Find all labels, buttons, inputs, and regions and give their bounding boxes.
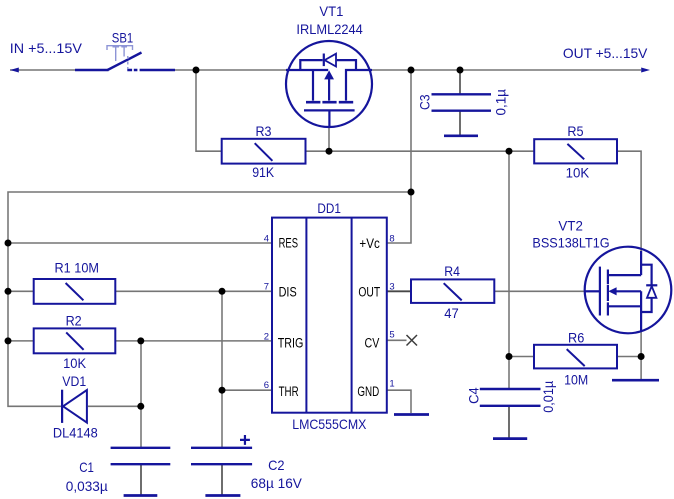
svg-text:DIS: DIS xyxy=(279,284,297,299)
svg-text:IRLML2244: IRLML2244 xyxy=(296,21,363,37)
svg-text:TRIG: TRIG xyxy=(278,335,304,350)
svg-text:OUT: OUT xyxy=(358,284,380,299)
svg-text:0,1µ: 0,1µ xyxy=(493,89,509,116)
svg-text:91K: 91K xyxy=(252,164,275,180)
svg-text:R1 10M: R1 10M xyxy=(55,260,100,276)
svg-text:2: 2 xyxy=(264,331,269,342)
svg-text:0,01µ: 0,01µ xyxy=(540,381,556,413)
svg-text:5: 5 xyxy=(389,330,394,341)
svg-text:THR: THR xyxy=(279,384,299,399)
svg-text:RES: RES xyxy=(279,235,298,250)
svg-text:+Vc: +Vc xyxy=(359,236,380,251)
svg-text:C1: C1 xyxy=(79,459,94,475)
svg-text:10M: 10M xyxy=(564,371,588,387)
svg-text:DL4148: DL4148 xyxy=(53,424,98,440)
svg-text:LMC555CMX: LMC555CMX xyxy=(292,416,367,432)
svg-text:68µ 16V: 68µ 16V xyxy=(251,475,303,491)
svg-text:GND: GND xyxy=(357,384,379,399)
svg-text:R3: R3 xyxy=(256,123,272,139)
svg-text:IN +5...15V: IN +5...15V xyxy=(10,40,83,56)
svg-text:VT2: VT2 xyxy=(558,218,583,234)
svg-text:VD1: VD1 xyxy=(62,373,86,389)
svg-text:R2: R2 xyxy=(66,313,82,329)
svg-text:C3: C3 xyxy=(417,94,433,110)
svg-text:10K: 10K xyxy=(566,164,590,180)
svg-text:C4: C4 xyxy=(466,387,482,404)
svg-text:VT1: VT1 xyxy=(319,3,343,19)
svg-text:OUT +5...15V: OUT +5...15V xyxy=(563,45,648,61)
svg-text:7: 7 xyxy=(264,282,269,293)
svg-text:4: 4 xyxy=(264,234,269,245)
svg-text:CV: CV xyxy=(365,335,380,350)
svg-text:8: 8 xyxy=(389,233,394,244)
svg-text:47: 47 xyxy=(444,305,459,321)
svg-text:DD1: DD1 xyxy=(317,200,341,216)
svg-text:SB1: SB1 xyxy=(112,30,134,46)
svg-text:R4: R4 xyxy=(444,263,460,279)
svg-text:C2: C2 xyxy=(268,457,285,473)
svg-text:1: 1 xyxy=(389,378,394,389)
svg-text:R5: R5 xyxy=(567,123,583,139)
svg-text:0,033µ: 0,033µ xyxy=(66,478,108,494)
svg-text:R6: R6 xyxy=(568,330,584,346)
svg-text:10K: 10K xyxy=(63,355,87,371)
svg-text:3: 3 xyxy=(389,282,394,293)
svg-text:6: 6 xyxy=(264,380,269,391)
svg-text:BSS138LT1G: BSS138LT1G xyxy=(532,234,609,250)
